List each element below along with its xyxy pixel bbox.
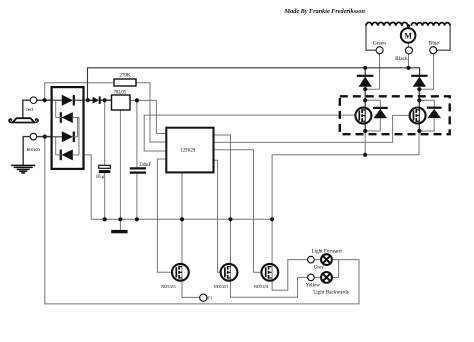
svg-text:brown: brown: [27, 147, 41, 153]
svg-text:10 μ: 10 μ: [96, 175, 105, 180]
svg-text:78L05: 78L05: [114, 91, 127, 96]
svg-text:12F629: 12F629: [180, 149, 195, 154]
svg-text:Light Forward: Light Forward: [311, 248, 342, 254]
svg-text:Green: Green: [373, 41, 386, 47]
svg-text:Made By Frankie Frederiksson: Made By Frankie Frederiksson: [284, 8, 366, 15]
svg-text:red: red: [26, 107, 33, 113]
svg-text:Light Backwards: Light Backwards: [313, 289, 349, 295]
svg-text:F1: F1: [207, 296, 213, 301]
svg-text:Grey: Grey: [314, 265, 324, 270]
svg-text:330nF: 330nF: [139, 163, 152, 168]
svg-text:M: M: [404, 32, 412, 41]
svg-text:ND5351: ND5351: [161, 284, 176, 289]
svg-text:Black: Black: [395, 56, 408, 62]
svg-text:270K: 270K: [120, 74, 132, 79]
svg-text:ND5351: ND5351: [254, 284, 269, 289]
svg-text:Yellow: Yellow: [306, 284, 321, 289]
svg-text:Blue: Blue: [429, 41, 440, 47]
svg-text:ND5351: ND5351: [213, 284, 228, 289]
